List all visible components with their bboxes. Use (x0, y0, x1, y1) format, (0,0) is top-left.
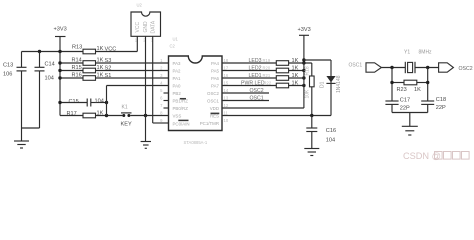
svg-text:U1: U1 (173, 37, 179, 42)
svg-text:18: 18 (224, 58, 229, 63)
svg-text:PB2: PB2 (173, 91, 182, 96)
net LED3 / resistor R19 (222, 58, 312, 66)
svg-text:OSC1: OSC1 (250, 96, 264, 102)
ground middle (141, 116, 151, 149)
svg-text:VDD: VDD (210, 106, 219, 111)
wire sensor DATA pin (152, 36, 154, 123)
svg-text:LED1: LED1 (249, 73, 262, 79)
net PWR LED / resistor R22 (222, 80, 306, 87)
op IC U1 body (169, 37, 223, 146)
svg-text:R16: R16 (72, 72, 82, 78)
svg-text:11: 11 (224, 111, 229, 116)
resistor R14 (58, 57, 168, 65)
svg-text:C16: C16 (326, 128, 336, 134)
svg-text:R18: R18 (304, 66, 310, 75)
junction crystal right (426, 66, 429, 69)
svg-text:GND: GND (143, 21, 149, 33)
svg-text:OSC2: OSC2 (207, 91, 220, 96)
svg-text:R21: R21 (263, 73, 271, 78)
svg-text:PA4: PA4 (211, 61, 220, 66)
IC overline RES (211, 112, 220, 114)
resistor R18 (304, 63, 314, 116)
junction rail/C14 (38, 50, 41, 53)
svg-text:17: 17 (224, 66, 229, 71)
resistor R13 (72, 44, 137, 54)
IC right pin labels (200, 61, 220, 126)
svg-text:C17: C17 (400, 98, 410, 104)
svg-text:104: 104 (95, 98, 104, 104)
wire +3V3 rail (22, 51, 84, 53)
svg-text:C14: C14 (45, 62, 55, 68)
svg-text:VCC: VCC (135, 22, 141, 33)
svg-text:+3V3: +3V3 (54, 27, 67, 33)
svg-text:PA0: PA0 (173, 83, 182, 88)
svg-text:10K: 10K (304, 89, 310, 99)
wire RES row (222, 115, 331, 117)
svg-text:R14: R14 (72, 57, 82, 63)
net flag OSC2 (439, 63, 473, 72)
wire left branch rail (59, 52, 61, 116)
svg-text:1K: 1K (292, 73, 299, 79)
svg-text:13: 13 (224, 96, 229, 101)
resistor R23 (390, 68, 429, 102)
capacitor C17 (385, 98, 410, 113)
svg-text:OSC2: OSC2 (459, 66, 473, 72)
wire key node vertical (106, 86, 108, 116)
svg-text:K1: K1 (122, 105, 128, 111)
crystal Y1 (404, 50, 439, 74)
svg-text:PA7: PA7 (211, 83, 220, 88)
svg-text:22P: 22P (436, 105, 446, 111)
svg-text:PWR LED: PWR LED (241, 80, 265, 86)
svg-text:106: 106 (3, 72, 12, 78)
switch K1 (121, 105, 169, 128)
svg-text:R23: R23 (397, 87, 407, 93)
svg-text:D1: D1 (320, 81, 326, 88)
svg-text:OSC2: OSC2 (250, 88, 264, 94)
svg-text:R13: R13 (72, 44, 82, 50)
capacitor C14 (35, 52, 55, 129)
svg-text:KEY: KEY (121, 122, 132, 128)
IC right pin numbers (224, 58, 229, 123)
junction C15/R17 right node (105, 101, 108, 104)
ground crystal (402, 126, 418, 135)
svg-text:LED3: LED3 (249, 58, 262, 64)
IC overline PB1/RZ (180, 98, 186, 100)
svg-text:PB0/RZ: PB0/RZ (173, 106, 189, 111)
svg-text:R17: R17 (67, 111, 77, 117)
svg-text:Y1: Y1 (404, 50, 410, 56)
svg-text:PA5: PA5 (211, 68, 220, 73)
svg-text:PC1/TMR: PC1/TMR (200, 121, 219, 126)
svg-text:16: 16 (224, 73, 229, 78)
svg-text:R19: R19 (263, 58, 271, 63)
svg-text:PA3: PA3 (173, 61, 182, 66)
svg-text:OSC1: OSC1 (207, 98, 220, 103)
wire sensor VCC pin (136, 36, 138, 51)
sensor U2 (131, 3, 161, 43)
svg-text:104: 104 (326, 137, 335, 143)
IC overline PC0/AIN (178, 119, 188, 121)
svg-text:+3V3: +3V3 (298, 27, 311, 33)
IC left pin stubs rows 5-7 (164, 92, 169, 94)
svg-text:PA6: PA6 (211, 76, 220, 81)
wire sensor GND pin (145, 36, 147, 115)
wire key to PA0 (107, 85, 169, 87)
svg-text:14: 14 (224, 88, 229, 93)
power +3V3 right (298, 27, 311, 108)
svg-text:1K: 1K (292, 80, 299, 86)
svg-text:C18: C18 (436, 97, 446, 103)
svg-text:1K: 1K (292, 65, 299, 71)
net label OSC1 (IC side) (222, 96, 269, 102)
wire crystal cap join (392, 112, 428, 114)
svg-text:STA0885A-1: STA0885A-1 (184, 140, 208, 145)
net LED1 / resistor R21 (222, 73, 306, 80)
svg-text:1N4148: 1N4148 (336, 75, 342, 93)
net flag OSC1 (349, 62, 406, 72)
junction rail/+3V3 stem (58, 50, 61, 53)
power +3V3 left (54, 27, 67, 52)
svg-text:8MHz: 8MHz (419, 50, 433, 56)
svg-text:R20: R20 (263, 65, 271, 70)
junction crystal left (390, 66, 393, 69)
wire VDD row to bus (222, 107, 304, 109)
IC left pin numbers (160, 58, 163, 123)
svg-text:VSS: VSS (173, 113, 182, 118)
IC left pin labels (173, 61, 190, 127)
resistor R17 (60, 110, 122, 117)
svg-text:DATA: DATA (150, 20, 156, 33)
diode D1 (302, 58, 342, 115)
svg-text:R22: R22 (264, 80, 272, 85)
svg-text:12: 12 (224, 103, 229, 108)
resistor R15 (58, 65, 168, 73)
resistor R16 (58, 72, 168, 80)
net LED2 / resistor R20 (222, 65, 306, 72)
capacitor C16 (306, 114, 336, 149)
wire cap bottom join (22, 127, 40, 129)
net label OSC2 (IC side) (222, 88, 269, 94)
svg-text:OSC1: OSC1 (349, 62, 363, 68)
svg-text:1K: 1K (414, 87, 421, 93)
capacitor C18 (421, 97, 446, 113)
svg-text:PC0/AIN: PC0/AIN (173, 121, 190, 126)
svg-text:10: 10 (224, 118, 229, 123)
svg-text:U2: U2 (137, 3, 143, 8)
svg-text:1K: 1K (292, 58, 299, 64)
svg-text:R15: R15 (72, 65, 82, 71)
svg-text:22P: 22P (400, 106, 410, 112)
capacitor C13 (3, 52, 27, 142)
svg-text:LED2: LED2 (249, 65, 262, 71)
watermark (403, 151, 469, 161)
svg-text:104: 104 (45, 76, 54, 82)
svg-text:PA1: PA1 (173, 76, 182, 81)
svg-text:15: 15 (224, 81, 229, 86)
svg-text:PA2: PA2 (173, 68, 182, 73)
capacitor C15 (58, 98, 106, 106)
ground left (14, 141, 29, 148)
ground C16 (304, 149, 319, 156)
svg-text:C2: C2 (170, 44, 176, 49)
svg-text:C13: C13 (3, 63, 13, 69)
junction switch/sensor gnd (144, 114, 147, 117)
